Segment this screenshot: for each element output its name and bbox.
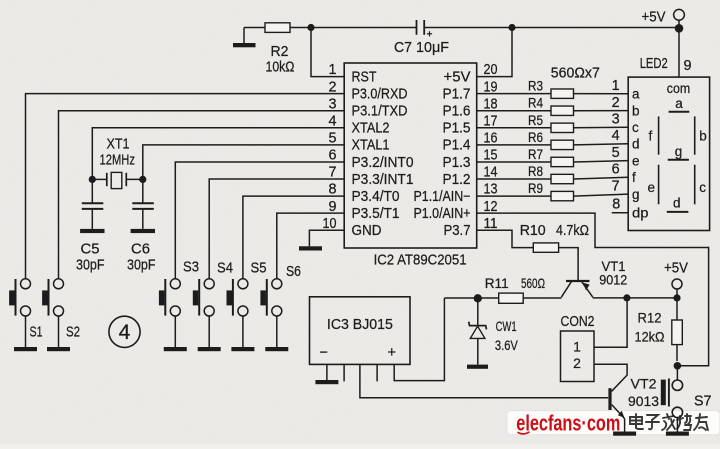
svg-text:3: 3: [328, 96, 336, 112]
svg-text:1: 1: [612, 78, 620, 94]
svg-text:R5: R5: [528, 112, 543, 128]
svg-text:R4: R4: [528, 95, 543, 111]
svg-text:R6: R6: [528, 129, 543, 145]
svg-text:10μF: 10μF: [416, 39, 449, 56]
svg-text:S2: S2: [66, 325, 80, 341]
svg-text:a: a: [675, 96, 683, 111]
svg-text:e: e: [648, 180, 656, 195]
svg-text:3: 3: [612, 112, 620, 128]
svg-text:XT1: XT1: [107, 137, 130, 153]
svg-text:P1.1/AIN−: P1.1/AIN−: [414, 189, 471, 205]
svg-text:12: 12: [484, 199, 498, 215]
svg-text:P3.5/T1: P3.5/T1: [352, 206, 400, 222]
svg-text:P3.1/TXD: P3.1/TXD: [352, 104, 408, 120]
svg-text:P3.4/T0: P3.4/T0: [352, 189, 400, 205]
svg-text:e: e: [632, 154, 640, 169]
svg-text:P1.5: P1.5: [443, 121, 471, 137]
svg-text:RST: RST: [352, 69, 377, 85]
svg-text:P1.0/AIN+: P1.0/AIN+: [414, 206, 471, 222]
svg-text:19: 19: [484, 79, 498, 95]
svg-text:S3: S3: [183, 260, 199, 276]
svg-text:30pF: 30pF: [127, 258, 156, 274]
svg-text:S4: S4: [217, 261, 233, 277]
svg-text:6: 6: [328, 148, 336, 164]
svg-text:b: b: [632, 104, 640, 119]
svg-text:f: f: [632, 170, 636, 185]
svg-text:R7: R7: [528, 146, 543, 162]
svg-text:+5V: +5V: [444, 69, 471, 85]
svg-text:P1.7: P1.7: [443, 86, 471, 102]
svg-text:IC3 BJ015: IC3 BJ015: [327, 316, 393, 333]
svg-text:5: 5: [328, 130, 336, 146]
svg-text:c: c: [632, 120, 639, 135]
svg-text:9: 9: [684, 58, 692, 74]
svg-text:−: −: [320, 345, 328, 361]
svg-text:4: 4: [119, 321, 131, 344]
svg-text:d: d: [632, 137, 640, 152]
svg-text:R3: R3: [528, 78, 543, 94]
svg-text:R8: R8: [528, 163, 543, 179]
svg-text:C6: C6: [131, 242, 150, 258]
svg-text:1: 1: [573, 339, 581, 355]
svg-text:f: f: [649, 128, 653, 143]
svg-text:LED2: LED2: [640, 56, 668, 72]
svg-text:R12: R12: [638, 310, 662, 326]
svg-text:5: 5: [612, 145, 620, 161]
svg-text:XTAL2: XTAL2: [352, 121, 390, 137]
svg-text:IC2 AT89C2051: IC2 AT89C2051: [374, 252, 467, 269]
svg-text:7: 7: [612, 179, 620, 195]
svg-text:g: g: [675, 144, 683, 159]
svg-text:7: 7: [328, 165, 336, 181]
svg-text:d: d: [673, 196, 681, 211]
svg-text:S1: S1: [30, 325, 43, 341]
svg-text:9: 9: [328, 199, 336, 215]
svg-text:2: 2: [573, 355, 581, 371]
svg-text:560Ω: 560Ω: [521, 275, 545, 291]
svg-text:560Ωx7: 560Ωx7: [551, 66, 600, 82]
svg-text:g: g: [632, 187, 640, 202]
svg-text:a: a: [632, 87, 640, 102]
svg-text:13: 13: [484, 182, 498, 198]
svg-text:elecfans·com: elecfans·com: [516, 411, 620, 436]
svg-text:30pF: 30pF: [76, 258, 105, 274]
svg-text:4: 4: [612, 128, 620, 144]
svg-text:2: 2: [612, 95, 620, 111]
svg-text:P3.2/INT0: P3.2/INT0: [352, 155, 414, 171]
svg-text:20: 20: [484, 62, 498, 78]
svg-text:2: 2: [328, 79, 336, 95]
svg-text:4: 4: [328, 113, 336, 129]
svg-text:11: 11: [484, 216, 498, 232]
svg-text:1: 1: [328, 62, 336, 78]
svg-text:C7: C7: [394, 39, 412, 56]
svg-text:com: com: [667, 80, 691, 96]
svg-text:CW1: CW1: [496, 318, 517, 334]
svg-text:6: 6: [612, 162, 620, 178]
svg-text:CON2: CON2: [561, 314, 595, 330]
svg-text:S6: S6: [286, 264, 301, 280]
svg-text:4.7kΩ: 4.7kΩ: [556, 223, 589, 239]
svg-text:R9: R9: [528, 180, 543, 196]
svg-text:c: c: [699, 180, 706, 195]
svg-text:14: 14: [484, 165, 498, 181]
svg-text:3.6V: 3.6V: [495, 337, 519, 353]
svg-text:8: 8: [328, 182, 336, 198]
svg-text:8: 8: [612, 197, 620, 213]
svg-text:P3.7: P3.7: [444, 223, 471, 239]
svg-text:17: 17: [484, 113, 498, 129]
svg-text:16: 16: [484, 130, 498, 146]
svg-text:P1.6: P1.6: [443, 104, 471, 120]
svg-text:12MHz: 12MHz: [100, 153, 136, 169]
svg-text:R10: R10: [520, 223, 546, 239]
svg-text:P3.0/RXD: P3.0/RXD: [352, 86, 408, 102]
svg-text:9013: 9013: [628, 393, 659, 409]
svg-text:P1.2: P1.2: [443, 172, 471, 188]
svg-text:15: 15: [484, 148, 498, 164]
svg-text:GND: GND: [352, 223, 382, 239]
svg-text:P1.4: P1.4: [443, 138, 471, 154]
svg-text:+: +: [388, 345, 396, 361]
svg-text:9012: 9012: [599, 272, 627, 288]
svg-text:+5V: +5V: [642, 9, 666, 26]
svg-text:12kΩ: 12kΩ: [635, 329, 665, 345]
svg-text:10: 10: [323, 216, 337, 232]
svg-text:P1.3: P1.3: [443, 155, 471, 171]
svg-text:R2: R2: [271, 43, 289, 60]
svg-text:S7: S7: [694, 394, 712, 410]
svg-text:dp: dp: [632, 206, 649, 221]
svg-text:S5: S5: [251, 261, 267, 277]
svg-text:18: 18: [484, 96, 498, 112]
svg-text:+5V: +5V: [664, 261, 688, 277]
svg-text:10kΩ: 10kΩ: [266, 59, 295, 76]
svg-text:R11: R11: [485, 275, 509, 291]
svg-text:XTAL1: XTAL1: [352, 138, 390, 154]
svg-text:C5: C5: [81, 242, 100, 258]
svg-text:VT2: VT2: [631, 376, 657, 392]
svg-text:P3.3/INT1: P3.3/INT1: [352, 172, 414, 188]
svg-text:b: b: [699, 128, 707, 143]
